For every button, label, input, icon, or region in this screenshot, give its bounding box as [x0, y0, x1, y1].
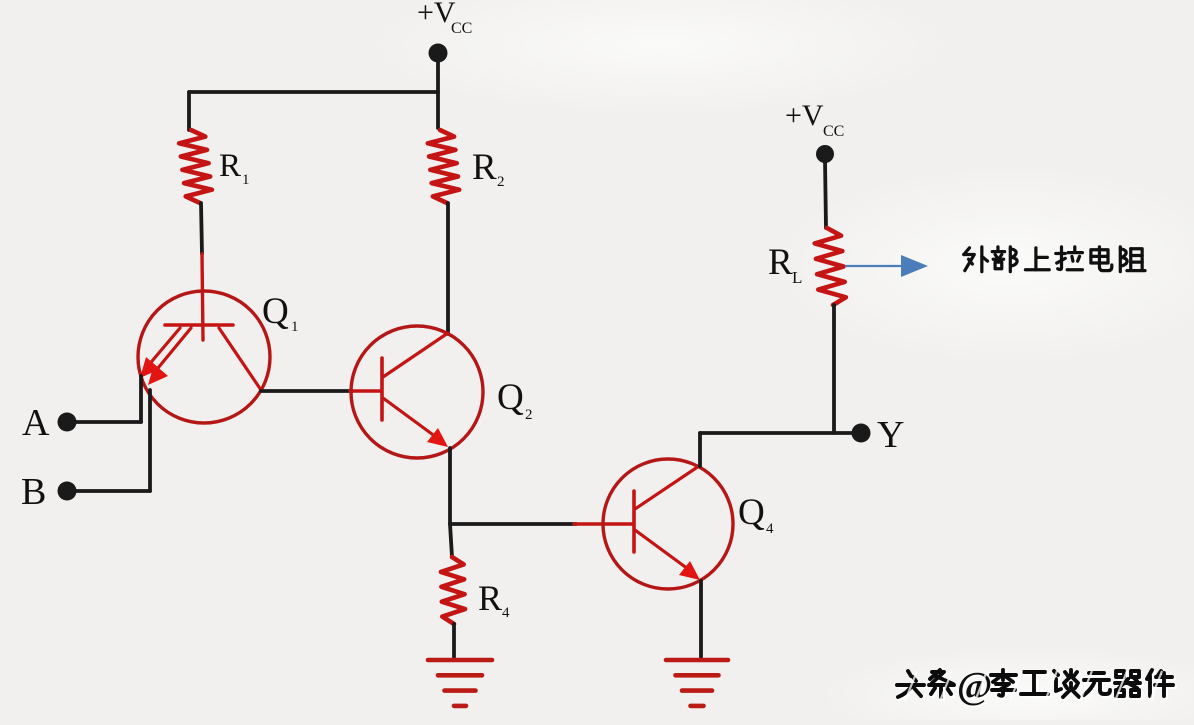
- label annotation text 外部上拉电阻 (external pull-up resistor): [964, 247, 988, 272]
- wire Q2 emitter down: [448, 448, 452, 524]
- ground (below Q4): [666, 658, 728, 663]
- wire RL down to output: [832, 305, 836, 433]
- wire input A: [67, 420, 141, 424]
- wire R2 to Q2 collector: [446, 203, 450, 334]
- svg-text:L: L: [792, 268, 802, 287]
- wire node down to R4: [450, 524, 452, 557]
- ground (below R4): [428, 658, 492, 663]
- svg-text:Q: Q: [262, 291, 289, 332]
- wire R1 to Q1 base (black part): [201, 203, 202, 254]
- node +Vcc top dot: [429, 44, 448, 63]
- wire rail down to R1: [187, 92, 191, 130]
- svg-text:1: 1: [242, 172, 250, 188]
- svg-text:2: 2: [525, 407, 533, 423]
- wire Q1 collector to Q2 base: [261, 389, 352, 393]
- svg-text:CC: CC: [823, 123, 844, 140]
- transistor Q2: [351, 326, 483, 458]
- svg-text:Q: Q: [738, 492, 765, 533]
- wire Vcc to RL: [825, 160, 826, 228]
- wire R1 to Q1 base (red part): [202, 254, 203, 340]
- resistor RL (external pull-up): [815, 228, 846, 305]
- wire output horizontal to Y: [700, 431, 858, 435]
- node A terminal dot: [58, 413, 77, 432]
- resistor R4: [441, 557, 465, 624]
- wire input B: [67, 489, 150, 493]
- svg-text:R: R: [219, 148, 241, 184]
- transistor Q1: [138, 291, 270, 423]
- wire Q4 collector up: [698, 433, 702, 466]
- svg-text:1: 1: [291, 319, 299, 335]
- wire top horizontal rail: [189, 90, 438, 94]
- wire node to Q4 base (black): [450, 522, 576, 526]
- svg-text:R: R: [478, 578, 502, 618]
- svg-text:B: B: [21, 471, 46, 513]
- svg-text:A: A: [22, 402, 50, 444]
- wire Q4 emitter down: [699, 581, 703, 658]
- svg-text:+V: +V: [785, 99, 824, 132]
- node +Vcc right dot: [816, 145, 834, 163]
- resistor R1: [179, 130, 212, 203]
- node B terminal dot: [58, 482, 77, 501]
- wire R4 to ground: [452, 624, 456, 659]
- svg-text:CC: CC: [451, 20, 472, 37]
- watermark 头条@李工谈元器件: [897, 665, 1175, 709]
- transistor Q4: [603, 459, 733, 589]
- svg-text:Q: Q: [497, 377, 524, 418]
- svg-text:4: 4: [502, 605, 510, 621]
- svg-text:4: 4: [766, 521, 774, 537]
- svg-text:R: R: [768, 242, 793, 283]
- svg-text:R: R: [472, 147, 497, 188]
- annotation arrow (blue): [846, 265, 902, 267]
- wire Q4 base lead (red): [574, 522, 633, 525]
- wire Q2 base lead (red): [350, 389, 381, 392]
- svg-text:2: 2: [497, 174, 505, 190]
- wire Vcc dot down to rail: [436, 58, 440, 128]
- resistor R2: [428, 130, 459, 203]
- node Y output dot: [852, 424, 871, 443]
- svg-text:Y: Y: [877, 414, 904, 456]
